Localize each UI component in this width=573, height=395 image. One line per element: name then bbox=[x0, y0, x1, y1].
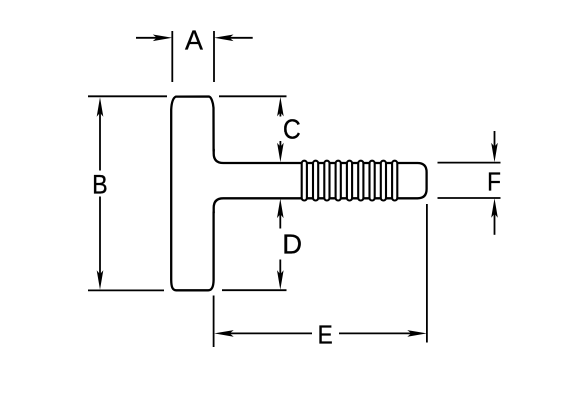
thread rib 7 bbox=[370, 161, 375, 201]
dimension B top extension line bbox=[88, 95, 167, 97]
threaded shaft (part outline) bbox=[214, 150, 427, 213]
svg-text:D: D bbox=[282, 228, 302, 259]
thread rib 8 bbox=[381, 161, 386, 201]
thread rib 4 bbox=[336, 161, 341, 201]
dimension A right arrow bbox=[214, 35, 253, 42]
thread rib 6 bbox=[358, 161, 363, 201]
dimension F bottom arrow bbox=[491, 198, 498, 235]
dimension B bottom extension line bbox=[88, 289, 164, 291]
dimension F top arrow bbox=[491, 131, 498, 162]
thread rib 9 bbox=[392, 161, 397, 201]
dimension C arrows bbox=[277, 97, 284, 162]
dimension D arrows bbox=[277, 199, 284, 290]
svg-text:A: A bbox=[185, 24, 204, 56]
svg-text:B: B bbox=[92, 170, 108, 200]
dimension A left arrow bbox=[136, 35, 172, 42]
dimension F bottom extension line bbox=[438, 197, 501, 199]
T-handle body (part outline) bbox=[171, 97, 213, 291]
dimension E line bbox=[214, 330, 427, 337]
svg-text:E: E bbox=[318, 321, 333, 350]
dimension E left extension line bbox=[213, 296, 215, 348]
thread rib 1 bbox=[302, 161, 307, 201]
thread rib 5 bbox=[347, 161, 352, 201]
dimension E right extension line bbox=[426, 204, 428, 343]
dimension B line bbox=[97, 97, 104, 290]
dimension A extension line right bbox=[213, 31, 215, 82]
dimension C top extension line bbox=[219, 95, 287, 97]
thread rib 3 bbox=[324, 161, 329, 201]
svg-text:C: C bbox=[283, 113, 301, 145]
dimension F top extension line bbox=[438, 162, 501, 164]
dimension D bottom extension line bbox=[222, 289, 287, 291]
dimension A extension line left bbox=[171, 31, 173, 82]
thread rib 2 bbox=[313, 161, 318, 201]
svg-text:F: F bbox=[487, 168, 501, 197]
